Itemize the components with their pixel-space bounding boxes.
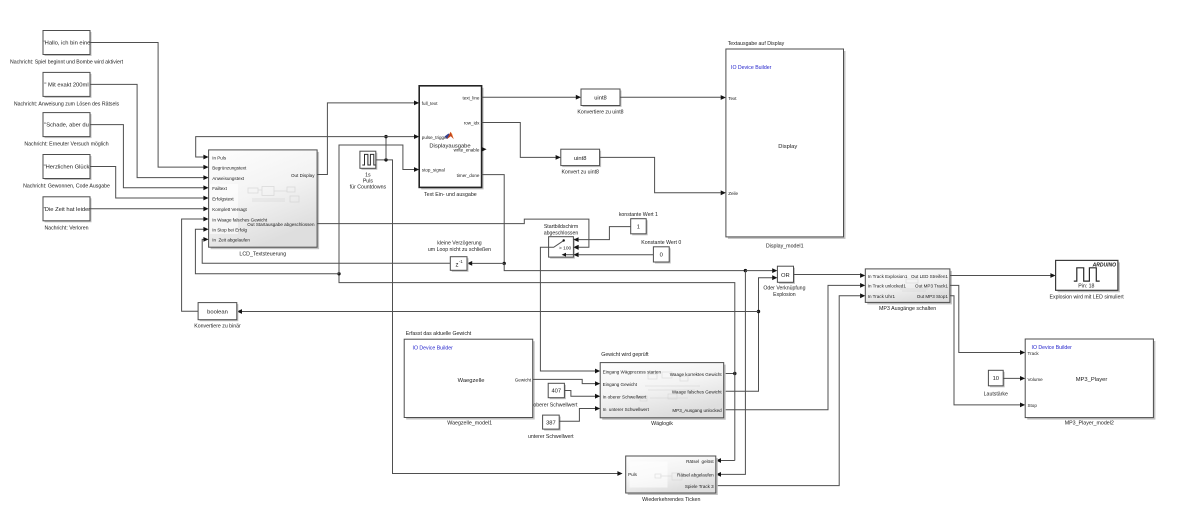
wire stop rail up to stop_signal bbox=[339, 145, 419, 274]
wire text_line to uint8 bbox=[482, 95, 581, 100]
svg-text:Zeile: Zeile bbox=[728, 191, 738, 196]
svg-text:Gewicht wird geprüft: Gewicht wird geprüft bbox=[601, 352, 649, 358]
wire junction to delay input bbox=[467, 261, 504, 266]
junction falsch net at boolean rail bbox=[757, 310, 760, 313]
svg-text:Rätsel abgelaufen: Rätsel abgelaufen bbox=[677, 473, 714, 478]
svg-text:full_text: full_text bbox=[422, 101, 438, 106]
svg-text:Out Display: Out Display bbox=[291, 173, 315, 178]
wire Nachricht1 to Begruenzungstext bbox=[90, 43, 209, 170]
svg-text:> 100: > 100 bbox=[559, 246, 571, 252]
wire Nachricht4 to Erfolgstext bbox=[90, 167, 209, 201]
converter uint8 Konvert zu uint8 bbox=[561, 149, 601, 175]
constant 387 unterer Schwellwert bbox=[528, 415, 574, 440]
svg-text:Nachricht: Verloren: Nachricht: Verloren bbox=[44, 226, 88, 232]
wire Konstante Wert 0 to switch input 3 bbox=[579, 254, 654, 256]
wire boolean output to In Waage falsches Gewicht bbox=[182, 217, 209, 312]
svg-text:Pin: 18: Pin: 18 bbox=[1078, 284, 1094, 290]
svg-text:Volume: Volume bbox=[1028, 377, 1044, 382]
svg-text:IO Device Builder: IO Device Builder bbox=[413, 345, 454, 351]
svg-text:Wäglogik: Wäglogik bbox=[651, 421, 673, 427]
wire falsch net to boolean input bbox=[237, 309, 759, 314]
subsystem Wiederkehrendes Ticken bbox=[626, 456, 718, 503]
source block Nachricht3 "*Schade, aber du" bbox=[24, 113, 108, 148]
junction timer_done at delay input bbox=[503, 262, 506, 265]
svg-text:Startbildschirm: Startbildschirm bbox=[544, 224, 578, 230]
svg-text:Konvertiere zu binär: Konvertiere zu binär bbox=[194, 323, 241, 329]
svg-text:10: 10 bbox=[993, 376, 999, 382]
svg-text:MP3_Player_model2: MP3_Player_model2 bbox=[1065, 420, 1114, 426]
svg-text:Anweisungstext: Anweisungstext bbox=[212, 176, 245, 181]
converter uint8 Konvertiere zu uint8 bbox=[577, 89, 623, 115]
svg-text:um Loop nicht zu schließen: um Loop nicht zu schließen bbox=[428, 247, 491, 253]
constant 407 oberer Schwellwert bbox=[533, 383, 578, 408]
svg-text:Rätsel gelöst: Rätsel gelöst bbox=[686, 459, 714, 464]
svg-text:Erfasst das aktuelle Gewicht: Erfasst das aktuelle Gewicht bbox=[406, 331, 472, 337]
svg-text:Nachricht: Spiel beginnt und B: Nachricht: Spiel beginnt und Bombe wird … bbox=[10, 60, 124, 66]
svg-text:Eingang Wägprozess starten: Eingang Wägprozess starten bbox=[603, 369, 662, 374]
svg-text:In unterer Schwellwert: In unterer Schwellwert bbox=[603, 407, 650, 412]
svg-text:Explosion wird mit LED simulie: Explosion wird mit LED simuliert bbox=[1050, 294, 1125, 300]
switch Startbildschirm abgeschlossen bbox=[544, 224, 579, 258]
svg-text:text_line: text_line bbox=[462, 95, 479, 100]
svg-text:" Mit exakt 200ml: " Mit exakt 200ml bbox=[44, 83, 88, 89]
svg-text:stop_signal: stop_signal bbox=[422, 168, 445, 173]
svg-text:Display_model1: Display_model1 bbox=[766, 244, 804, 250]
svg-text:Oder Verknüpfung: Oder Verknüpfung bbox=[763, 286, 805, 292]
svg-text:Spiele Track 3: Spiele Track 3 bbox=[685, 484, 714, 489]
svg-text:Out MP3 Track1: Out MP3 Track1 bbox=[915, 284, 948, 289]
svg-text:0: 0 bbox=[660, 253, 663, 259]
svg-text:Waage falsches Gewicht: Waage falsches Gewicht bbox=[672, 390, 723, 395]
wire 387 to In unterer Schwellwert bbox=[559, 406, 600, 421]
svg-text:Nachricht: Erneuter Versuch mö: Nachricht: Erneuter Versuch möglich bbox=[24, 142, 108, 148]
wire falsch net: Waage falsches Gewicht up to OR and boolean bbox=[724, 275, 778, 391]
svg-text:für Countdowns: für Countdowns bbox=[350, 185, 387, 191]
wire stop rail to In Stop bei Erfolg bbox=[195, 227, 339, 274]
constant 10 Lautstärke bbox=[984, 370, 1008, 397]
svg-text:"Schade, aber du: "Schade, aber du bbox=[44, 123, 89, 129]
junction korrekt net bbox=[733, 372, 736, 375]
svg-text:"Die Zeit hat leider: "Die Zeit hat leider bbox=[43, 207, 91, 213]
unconnected port write_enable bbox=[482, 147, 487, 152]
wire pulse junction up to trigger rail bbox=[385, 137, 387, 160]
svg-text:In Stop bei Erfolg: In Stop bei Erfolg bbox=[212, 228, 247, 233]
svg-text:Konvert zu uint8: Konvert zu uint8 bbox=[561, 170, 599, 176]
source block Nachricht1 "*Hallo, ich bin eine" bbox=[10, 31, 124, 66]
svg-text:387: 387 bbox=[546, 420, 556, 426]
svg-text:OR: OR bbox=[781, 273, 790, 279]
wire row_idx to uint8 2 bbox=[482, 123, 561, 160]
svg-text:Wiederkehrendes Ticken: Wiederkehrendes Ticken bbox=[642, 497, 700, 503]
constant konstante Wert 1 bbox=[619, 212, 658, 235]
svg-text:Failtext: Failtext bbox=[212, 186, 227, 191]
wire Nachricht3 to Failtext bbox=[90, 125, 209, 191]
Arduino digital output block Pin 18 bbox=[1050, 260, 1125, 300]
wire delay output to In Zeit abgelaufen bbox=[202, 237, 450, 263]
svg-text:IO Device Builder: IO Device Builder bbox=[731, 65, 772, 71]
svg-text:Eingang Gewicht: Eingang Gewicht bbox=[603, 382, 638, 387]
svg-text:Waegzelle: Waegzelle bbox=[458, 378, 485, 384]
svg-text:Nachricht: Gewonnen, Code Ausg: Nachricht: Gewonnen, Code Ausgabe bbox=[23, 183, 110, 189]
wire Out MP3 Track1 to MP3_Player Track bbox=[950, 285, 1025, 355]
svg-text:LCD_Textsteuerung: LCD_Textsteuerung bbox=[239, 251, 286, 257]
svg-text:"Hallo, ich bin eine: "Hallo, ich bin eine bbox=[43, 41, 91, 47]
svg-text:Erfolgstext: Erfolgstext bbox=[212, 196, 234, 201]
svg-text:Out LED Streifen1: Out LED Streifen1 bbox=[911, 274, 948, 279]
wire Gewicht to Eingang Gewicht bbox=[533, 379, 601, 386]
wire Nachricht2 to Anweisungstext bbox=[90, 84, 209, 180]
svg-text:timer_done: timer_done bbox=[457, 173, 480, 178]
wire uint8 to Display Text bbox=[620, 95, 726, 100]
source block Nachricht5 "*Die Zeit hat leider" bbox=[43, 197, 92, 232]
svg-text:Konstante Wert 0: Konstante Wert 0 bbox=[641, 240, 681, 246]
svg-text:kleine Verzögerung: kleine Verzögerung bbox=[437, 240, 482, 246]
svg-text:Konvertiere zu uint8: Konvertiere zu uint8 bbox=[577, 109, 623, 115]
wire OR output to In Track Explosion1 bbox=[794, 273, 866, 278]
svg-text:In Track Uhr1: In Track Uhr1 bbox=[868, 294, 896, 299]
svg-text:Text: Text bbox=[728, 96, 737, 101]
IO block Display_model1 bbox=[726, 41, 846, 250]
svg-text:In Puls: In Puls bbox=[212, 155, 227, 160]
wire rail to LCD In Puls bbox=[196, 137, 386, 160]
wire 10 to Volume bbox=[1003, 376, 1025, 381]
wire Out Display to full_text bbox=[317, 101, 419, 175]
svg-text:Puls: Puls bbox=[363, 179, 373, 185]
svg-text:Track: Track bbox=[1028, 351, 1040, 356]
wire korrekt net vertical and to stop rail bbox=[339, 274, 735, 461]
pulse generator 1s Puls für Countdowns bbox=[350, 151, 387, 191]
wire timer net east to OR rail bbox=[504, 263, 745, 270]
wire Spiele Track 3 to In Track Uhr1 bbox=[716, 293, 866, 485]
wire konstante Wert 1 to switch input 1 bbox=[579, 227, 631, 240]
svg-text:row_idx: row_idx bbox=[464, 121, 480, 126]
svg-text:oberer Schwellwert: oberer Schwellwert bbox=[533, 403, 578, 409]
wire timer_done down bbox=[482, 175, 505, 264]
wire Out Startausgabe abgeschlossen to switch control bbox=[317, 219, 589, 250]
wire Nachricht5 to Komplett Versagt bbox=[90, 206, 209, 211]
svg-text:MP3_Ausgang unlocked: MP3_Ausgang unlocked bbox=[672, 408, 722, 413]
junction timer rail at OR bbox=[744, 269, 747, 272]
svg-text:407: 407 bbox=[551, 389, 561, 395]
svg-text:Out MP3 Stop1: Out MP3 Stop1 bbox=[917, 294, 949, 299]
svg-text:Out Startausgabe abgeschlossen: Out Startausgabe abgeschlossen bbox=[247, 222, 315, 227]
junction trigger rail bbox=[384, 135, 387, 138]
MATLAB function block Text Ein- und ausgabe bbox=[419, 86, 483, 198]
wire korrekt net into Ticken Rätsel gelöst bbox=[716, 458, 735, 463]
IO block Waegzelle_model1 bbox=[404, 331, 535, 426]
wire uint8 2 to Display Zeile bbox=[600, 157, 726, 195]
svg-text:Stop: Stop bbox=[1028, 403, 1038, 408]
wire MP3_Ausgang unlocked to In Track unlocked1 bbox=[724, 283, 866, 410]
svg-text:Gewicht: Gewicht bbox=[515, 378, 532, 383]
svg-text:Displayausgabe: Displayausgabe bbox=[429, 144, 470, 150]
svg-text:unterer Schwellwert: unterer Schwellwert bbox=[528, 434, 574, 440]
svg-text:abgeschlossen: abgeschlossen bbox=[544, 230, 579, 236]
wire Out MP3 Stop1 to MP3_Player Stop bbox=[950, 296, 1025, 408]
wire korrekt net: Waage korrektes Gewicht bbox=[724, 373, 735, 375]
svg-text:Komplett Versagt: Komplett Versagt bbox=[212, 207, 247, 212]
wire pulse out to junction and down to Ticken Puls bbox=[376, 160, 623, 476]
svg-text:Explosion: Explosion bbox=[773, 292, 796, 298]
svg-text:Waegzelle_model1: Waegzelle_model1 bbox=[447, 420, 492, 426]
svg-text:Text Ein- und ausgabe: Text Ein- und ausgabe bbox=[424, 192, 477, 198]
svg-text:In Zeit abgelaufen: In Zeit abgelaufen bbox=[212, 238, 250, 243]
junction pulse output bbox=[384, 158, 387, 161]
svg-text:Puls: Puls bbox=[628, 472, 638, 477]
svg-text:MP3_Player: MP3_Player bbox=[1076, 377, 1108, 383]
source block Nachricht4 "*Herzlichen Glück" bbox=[23, 155, 110, 190]
wire timer rail down to Ticken Rätsel abgelaufen bbox=[716, 271, 746, 477]
svg-text:In Track unlocked1: In Track unlocked1 bbox=[868, 284, 907, 289]
subsystem LCD_Textsteuerung bbox=[209, 150, 320, 258]
svg-text:pulse_trigger: pulse_trigger bbox=[422, 135, 449, 140]
converter boolean Konvertiere zu binär bbox=[194, 303, 241, 330]
IO block MP3_Player_model2 bbox=[1025, 339, 1155, 426]
svg-text:Display: Display bbox=[778, 144, 797, 150]
svg-text:MP3 Ausgänge schalten: MP3 Ausgänge schalten bbox=[879, 306, 936, 312]
MATLAB logo bbox=[445, 132, 454, 140]
wire rail to pulse_trigger port bbox=[386, 134, 419, 139]
delay block Z^-1 kleine Verzögerung bbox=[428, 240, 491, 271]
svg-text:In Track Explosion1: In Track Explosion1 bbox=[868, 274, 908, 279]
constant Konstante Wert 0 bbox=[641, 240, 681, 264]
svg-text:1s: 1s bbox=[365, 172, 371, 178]
wire switch output to Eingang Wägprozess starten bbox=[540, 247, 600, 373]
svg-text:Begrünzungstext: Begrünzungstext bbox=[212, 165, 247, 170]
junction stop rail bbox=[337, 272, 340, 275]
svg-text:In oberer Schwellwert: In oberer Schwellwert bbox=[603, 395, 647, 400]
subsystem MP3 Ausgänge schalten bbox=[865, 269, 952, 312]
svg-text:1: 1 bbox=[637, 224, 640, 230]
wire 407 to In oberer Schwellwert bbox=[564, 391, 600, 399]
wire Out LED Streifen1 to Arduino bbox=[950, 273, 1056, 278]
source block Nachricht2 "* Mit exakt 200ml" bbox=[14, 72, 120, 107]
svg-text:Lautstärke: Lautstärke bbox=[984, 391, 1008, 397]
svg-text:uint8: uint8 bbox=[594, 96, 607, 102]
wire timer rail to OR input 1 bbox=[745, 268, 777, 273]
svg-text:boolean: boolean bbox=[207, 310, 228, 316]
svg-text:"Herzlichen Glück: "Herzlichen Glück bbox=[44, 165, 90, 171]
svg-text:uint8: uint8 bbox=[574, 156, 587, 162]
svg-text:Textausgabe auf Display: Textausgabe auf Display bbox=[728, 41, 785, 47]
subsystem Wäglogik bbox=[600, 352, 726, 427]
svg-text:Waage korrektes Gewicht: Waage korrektes Gewicht bbox=[670, 372, 723, 377]
logic block OR Oder Verknüpfung Explosion bbox=[763, 266, 805, 298]
svg-text:Nachricht: Anweisung zum Lösen: Nachricht: Anweisung zum Lösen des Rätse… bbox=[14, 101, 120, 107]
svg-text:konstante Wert 1: konstante Wert 1 bbox=[619, 212, 658, 218]
